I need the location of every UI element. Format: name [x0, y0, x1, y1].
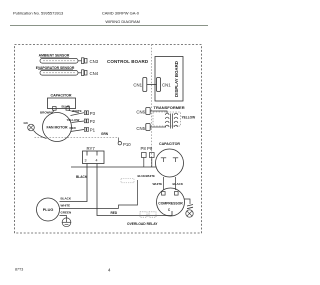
- svg-text:RED: RED: [111, 211, 118, 215]
- display board U2: [155, 57, 183, 102]
- svg-text:87T3: 87T3: [15, 268, 23, 272]
- quick connectors on red wire: [140, 212, 147, 217]
- wire CN6 to transformer: [150, 111, 167, 114]
- svg-text:CN5: CN5: [136, 126, 145, 131]
- svg-text:PLUG: PLUG: [43, 208, 54, 212]
- connector CN4: [82, 70, 84, 76]
- svg-text:COMPRESSOR: COMPRESSOR: [158, 201, 183, 205]
- evaporator sensor capsule: [40, 71, 78, 76]
- svg-text:BLACK: BLACK: [61, 196, 72, 200]
- compressor M2: [157, 188, 185, 216]
- svg-text:CN4: CN4: [90, 71, 99, 76]
- wire white plug to junction: [60, 208, 119, 210]
- transformer dashed enclosure: [153, 112, 181, 126]
- power plug P5: [37, 198, 60, 221]
- svg-text:P2: P2: [90, 119, 96, 124]
- connector P3: [84, 111, 86, 115]
- header rule: [10, 25, 208, 27]
- compressor chassis ground: [186, 210, 193, 217]
- wire P9 stub: [151, 158, 153, 168]
- svg-text:WHITE: WHITE: [72, 109, 82, 113]
- svg-text:Publication No. 5995573913: Publication No. 5995573913: [13, 11, 64, 16]
- svg-text:WHITE: WHITE: [61, 203, 71, 207]
- svg-text:BLACK: BLACK: [173, 182, 184, 186]
- wire brown capacitor to motor: [52, 110, 55, 113]
- fan capacitor C2 box: [48, 98, 76, 109]
- svg-text:GN: GN: [24, 121, 28, 125]
- svg-text:CN1: CN1: [133, 82, 142, 87]
- svg-text:RY7: RY7: [87, 146, 96, 151]
- svg-text:BLUE: BLUE: [62, 105, 70, 109]
- connector CN1 display board side: [157, 78, 161, 92]
- connector CN3: [82, 58, 84, 64]
- svg-text:CAPACITOR: CAPACITOR: [50, 93, 71, 97]
- wire: [78, 72, 82, 74]
- svg-text:CN6: CN6: [136, 110, 145, 115]
- svg-text:EVAPORATOR SENSOR: EVAPORATOR SENSOR: [36, 66, 75, 70]
- wire red relay to compressor: [97, 164, 172, 216]
- green dashed wire to P10: [35, 137, 119, 139]
- svg-text:P1: P1: [90, 128, 96, 133]
- svg-text:P3: P3: [90, 111, 96, 116]
- overload element: [187, 205, 193, 207]
- fan motor ground wire: [34, 131, 47, 139]
- wire P8 stub: [143, 158, 145, 168]
- svg-text:BLUE/WHITE: BLUE/WHITE: [138, 174, 156, 178]
- svg-text:RED: RED: [70, 126, 77, 130]
- svg-text:3: 3: [85, 158, 87, 162]
- svg-text:CAMD 30RPW GA-0: CAMD 30RPW GA-0: [102, 10, 140, 15]
- control board dashed partition: [151, 45, 153, 169]
- wire blue: [68, 110, 79, 113]
- svg-text:FAN MOTOR: FAN MOTOR: [47, 126, 68, 130]
- fan motor M1: [43, 113, 72, 142]
- pin P10: [118, 142, 121, 145]
- wire black cap to compressor: [175, 177, 177, 190]
- svg-text:YELLOW: YELLOW: [67, 118, 80, 122]
- chassis ground G1: [62, 218, 71, 227]
- svg-text:TRANSFORMER: TRANSFORMER: [154, 105, 185, 110]
- connector P1: [84, 128, 86, 132]
- svg-text:4: 4: [96, 158, 98, 162]
- wire CN5 to transformer: [150, 126, 166, 128]
- svg-text:BLACK: BLACK: [76, 175, 88, 179]
- ambient sensor capsule: [40, 59, 78, 64]
- svg-text:CN3: CN3: [90, 59, 99, 64]
- transformer T1 symbol: [165, 113, 177, 128]
- svg-text:GREEN: GREEN: [61, 210, 72, 214]
- wire: [78, 60, 82, 62]
- wire compressor to overload: [184, 199, 190, 204]
- run capacitor C1: [156, 149, 184, 177]
- svg-text:P8 P9: P8 P9: [141, 146, 153, 151]
- wire relay pin4 bus: [71, 166, 157, 168]
- svg-text:CAPACITOR: CAPACITOR: [159, 142, 180, 146]
- wire: [147, 84, 157, 86]
- svg-text:CN1: CN1: [162, 82, 171, 87]
- svg-text:OVERLOAD RELAY: OVERLOAD RELAY: [127, 222, 158, 226]
- wire white cap to compressor: [163, 177, 165, 190]
- svg-text:WHITE: WHITE: [153, 182, 163, 186]
- svg-text:DISPLAY BOARD: DISPLAY BOARD: [174, 61, 179, 97]
- wire green plug to ground: [60, 216, 67, 219]
- svg-text:YELLOW: YELLOW: [182, 116, 196, 120]
- svg-text:AMBIENT SENSOR: AMBIENT SENSOR: [39, 54, 70, 58]
- outer dashed cabinet box: [15, 45, 202, 234]
- fan motor chassis ground: [28, 124, 35, 131]
- svg-text:GRN: GRN: [101, 132, 109, 136]
- svg-text:4: 4: [108, 268, 111, 273]
- svg-text:CONTROL BOARD: CONTROL BOARD: [107, 59, 149, 64]
- connector P2: [84, 119, 86, 123]
- wire black relay to plug: [60, 164, 88, 202]
- svg-text:P10: P10: [123, 142, 131, 147]
- svg-text:C: C: [168, 208, 171, 212]
- svg-text:WIRING DIAGRAM: WIRING DIAGRAM: [105, 19, 140, 24]
